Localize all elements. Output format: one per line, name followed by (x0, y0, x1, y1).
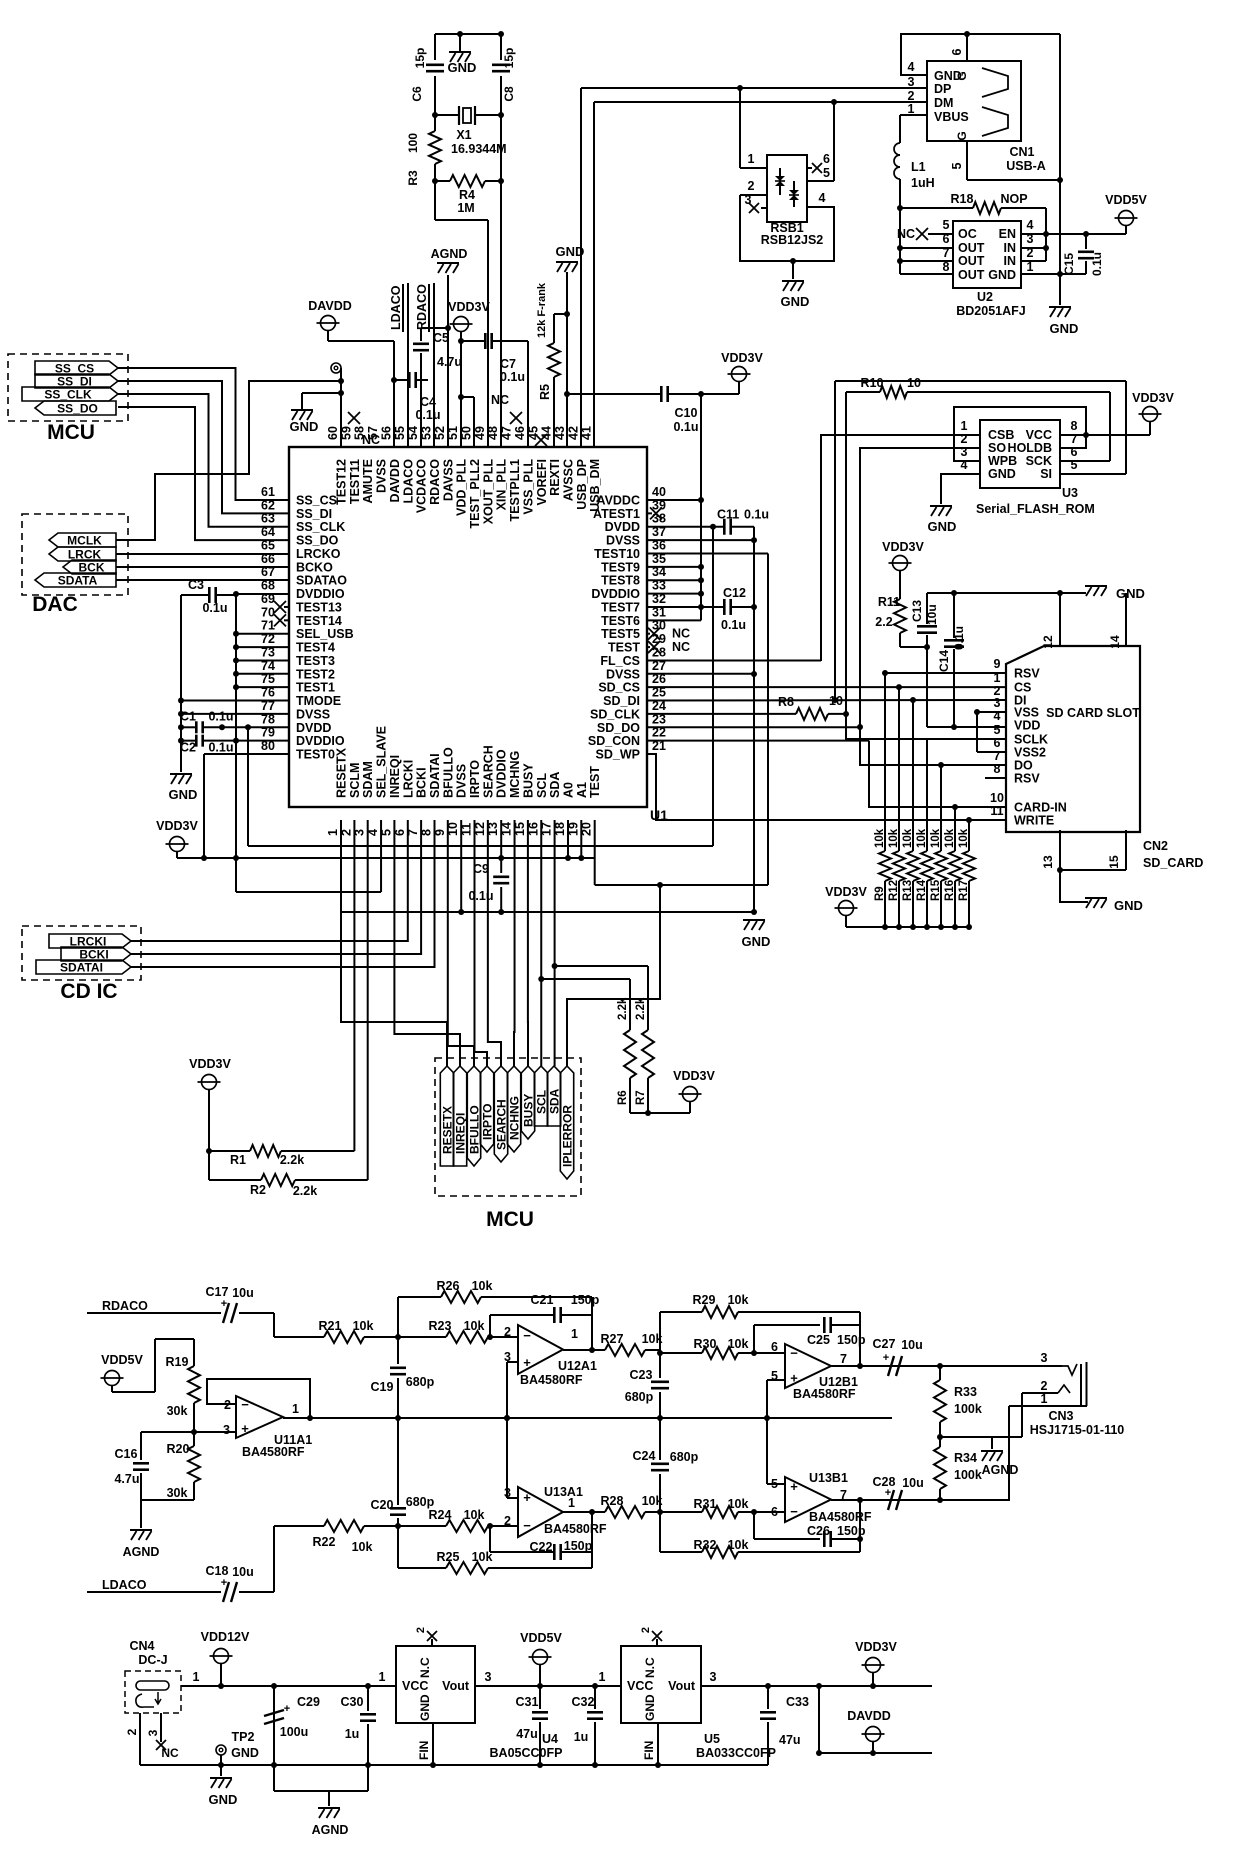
svg-text:6: 6 (771, 1340, 778, 1354)
svg-text:0.1u: 0.1u (208, 741, 233, 755)
svg-text:+: + (790, 1479, 798, 1494)
svg-text:SD CARD SLOT: SD CARD SLOT (1046, 706, 1140, 720)
svg-text:SEARCH: SEARCH (481, 745, 495, 798)
svg-text:DC-J: DC-J (138, 1653, 167, 1667)
svg-text:U12A1: U12A1 (558, 1359, 597, 1373)
svg-text:0.1u: 0.1u (952, 626, 966, 650)
svg-text:1: 1 (193, 1670, 200, 1684)
svg-text:R17: R17 (958, 880, 970, 901)
svg-text:MCU: MCU (486, 1208, 534, 1231)
svg-text:0.1u: 0.1u (202, 601, 227, 615)
svg-text:C1: C1 (180, 709, 196, 723)
svg-text:GND: GND (1050, 321, 1079, 336)
svg-text:IRPTO: IRPTO (468, 760, 482, 798)
svg-text:6: 6 (950, 48, 964, 55)
svg-text:Vout: Vout (668, 1679, 696, 1693)
svg-text:SDA: SDA (548, 1088, 562, 1114)
svg-text:VCC: VCC (402, 1679, 428, 1693)
svg-text:10k: 10k (888, 828, 900, 848)
svg-text:9: 9 (994, 657, 1001, 671)
svg-text:TEST9: TEST9 (601, 560, 640, 574)
svg-text:R23: R23 (429, 1319, 452, 1333)
svg-text:SCL: SCL (535, 773, 549, 798)
svg-text:USB-A: USB-A (1006, 159, 1046, 173)
svg-text:0.1u: 0.1u (673, 420, 698, 434)
svg-text:U5: U5 (704, 1732, 720, 1746)
svg-text:TEST3: TEST3 (296, 654, 335, 668)
svg-text:DVDD: DVDD (605, 520, 640, 534)
svg-text:3: 3 (223, 1423, 230, 1437)
svg-text:100u: 100u (280, 1725, 309, 1739)
svg-text:DAVSS: DAVSS (441, 459, 455, 501)
svg-text:5: 5 (950, 162, 964, 169)
svg-text:VOREFI: VOREFI (535, 459, 549, 506)
svg-text:1: 1 (571, 1327, 578, 1341)
svg-text:C32: C32 (572, 1695, 595, 1709)
svg-text:15: 15 (1107, 855, 1121, 869)
svg-text:2.2k: 2.2k (293, 1184, 317, 1198)
svg-text:R15: R15 (930, 879, 942, 901)
svg-text:RESETX: RESETX (441, 1106, 455, 1154)
svg-text:2: 2 (748, 179, 755, 193)
svg-text:CN3: CN3 (1048, 1409, 1073, 1423)
svg-text:C31: C31 (516, 1695, 539, 1709)
svg-text:15p: 15p (413, 48, 427, 69)
svg-text:C18: C18 (206, 1564, 229, 1578)
svg-text:SD_CON: SD_CON (588, 734, 640, 748)
svg-text:10k: 10k (472, 1279, 493, 1293)
svg-text:WPB: WPB (988, 454, 1017, 468)
svg-text:VDD5V: VDD5V (1105, 193, 1147, 207)
svg-text:BUSY: BUSY (521, 763, 535, 798)
svg-text:11: 11 (990, 804, 1003, 818)
svg-text:A0: A0 (561, 782, 575, 798)
svg-text:10k: 10k (353, 1319, 374, 1333)
svg-text:+: + (885, 1487, 891, 1499)
svg-text:DP: DP (934, 82, 951, 96)
svg-text:VCC: VCC (627, 1679, 653, 1693)
svg-text:VDD3V: VDD3V (855, 1640, 897, 1654)
svg-text:TEST0: TEST0 (296, 748, 335, 762)
svg-text:C5: C5 (433, 331, 449, 345)
svg-text:70: 70 (261, 605, 275, 619)
svg-text:VDD3V: VDD3V (448, 300, 490, 314)
svg-text:RSV: RSV (1014, 667, 1040, 681)
svg-text:1: 1 (908, 102, 915, 116)
svg-text:R33: R33 (954, 1385, 977, 1399)
svg-text:TEST5: TEST5 (601, 627, 640, 641)
svg-text:10k: 10k (902, 828, 914, 848)
svg-text:SS_DO: SS_DO (296, 534, 339, 548)
svg-text:SD_WP: SD_WP (596, 748, 640, 762)
svg-text:AVSSC: AVSSC (561, 459, 575, 501)
svg-text:IN: IN (1004, 254, 1017, 268)
svg-text:38: 38 (652, 512, 666, 526)
svg-text:LDACO: LDACO (389, 285, 403, 330)
svg-text:3: 3 (710, 1670, 717, 1684)
svg-text:C15: C15 (1062, 253, 1076, 275)
svg-text:GND: GND (742, 934, 771, 949)
svg-text:C22: C22 (530, 1540, 553, 1554)
svg-text:SI: SI (1040, 467, 1052, 481)
svg-text:SDAM: SDAM (361, 761, 375, 798)
svg-text:C25: C25 (807, 1333, 830, 1347)
svg-text:CN4: CN4 (129, 1639, 154, 1653)
svg-text:RDACO: RDACO (415, 284, 429, 330)
svg-text:100k: 100k (954, 1468, 982, 1482)
svg-text:NC: NC (672, 640, 690, 654)
svg-text:TEST6: TEST6 (601, 614, 640, 628)
svg-text:DVDDIO: DVDDIO (296, 734, 345, 748)
svg-text:4: 4 (994, 709, 1001, 723)
svg-text:10k: 10k (728, 1538, 749, 1552)
svg-text:U4: U4 (542, 1732, 558, 1746)
svg-text:GND: GND (988, 467, 1016, 481)
svg-text:VSS2: VSS2 (1014, 746, 1046, 760)
svg-text:ATEST1: ATEST1 (593, 507, 640, 521)
svg-text:AGND: AGND (123, 1545, 160, 1559)
svg-text:150p: 150p (837, 1333, 866, 1347)
svg-text:DAC: DAC (32, 593, 78, 616)
svg-text:GND: GND (209, 1792, 238, 1807)
svg-text:BUSY: BUSY (522, 1094, 536, 1127)
svg-text:TEST4: TEST4 (296, 641, 335, 655)
svg-text:0.1u: 0.1u (415, 408, 440, 422)
svg-text:10k: 10k (728, 1497, 749, 1511)
svg-text:6: 6 (823, 152, 830, 166)
svg-text:GND: GND (231, 1746, 259, 1760)
svg-text:DVDD: DVDD (296, 721, 331, 735)
svg-text:VDD3V: VDD3V (721, 351, 763, 365)
svg-text:DVDDIO: DVDDIO (591, 587, 640, 601)
svg-text:SDATA: SDATA (58, 574, 98, 588)
svg-text:0.1u: 0.1u (208, 709, 233, 723)
svg-text:3: 3 (908, 75, 915, 89)
svg-text:Vout: Vout (442, 1679, 470, 1693)
svg-text:+: + (523, 1355, 531, 1370)
svg-text:1: 1 (961, 419, 968, 433)
svg-text:BD2051AFJ: BD2051AFJ (956, 304, 1026, 318)
svg-text:10: 10 (907, 376, 921, 390)
svg-text:VDD5V: VDD5V (520, 1631, 562, 1645)
svg-text:GND: GND (643, 1694, 657, 1721)
svg-text:VSS_PLL: VSS_PLL (521, 459, 535, 515)
svg-text:G: G (955, 71, 969, 80)
svg-text:MCHNG: MCHNG (508, 751, 522, 798)
svg-text:C30: C30 (341, 1695, 364, 1709)
svg-text:Serial_FLASH_ROM: Serial_FLASH_ROM (976, 502, 1095, 516)
svg-text:C8: C8 (502, 86, 516, 102)
svg-text:BFULLO: BFULLO (441, 747, 455, 798)
svg-text:EN: EN (999, 227, 1016, 241)
svg-text:60: 60 (326, 426, 340, 440)
svg-text:2: 2 (1041, 1379, 1048, 1393)
svg-text:SCLM: SCLM (348, 763, 362, 798)
svg-text:VDD_PLL: VDD_PLL (455, 459, 469, 516)
svg-text:16.9344M: 16.9344M (451, 142, 507, 156)
svg-text:1M: 1M (457, 201, 474, 215)
svg-text:4.7u: 4.7u (437, 355, 462, 369)
svg-text:U2: U2 (977, 290, 993, 304)
svg-text:U13A1: U13A1 (544, 1485, 583, 1499)
svg-text:12: 12 (1041, 635, 1055, 649)
svg-text:GND: GND (418, 1694, 432, 1721)
svg-text:U13B1: U13B1 (809, 1471, 848, 1485)
svg-text:44: 44 (540, 426, 554, 440)
svg-text:CN1: CN1 (1009, 145, 1034, 159)
svg-text:1u: 1u (574, 1730, 589, 1744)
svg-text:10u: 10u (925, 604, 939, 625)
svg-text:1: 1 (1041, 1392, 1048, 1406)
svg-text:40: 40 (652, 485, 666, 499)
svg-text:VSS: VSS (1014, 706, 1039, 720)
svg-text:1: 1 (599, 1670, 606, 1684)
svg-text:30k: 30k (167, 1404, 188, 1418)
svg-text:−: − (790, 1504, 798, 1519)
svg-text:MCLK: MCLK (67, 534, 102, 548)
svg-text:BCKO: BCKO (296, 560, 333, 574)
svg-text:SS_DO: SS_DO (57, 402, 98, 416)
svg-text:10u: 10u (901, 1338, 923, 1352)
svg-text:1: 1 (292, 1402, 299, 1416)
svg-text:R2: R2 (250, 1183, 266, 1197)
svg-text:C29: C29 (297, 1695, 320, 1709)
svg-text:1u: 1u (345, 1727, 360, 1741)
svg-text:R5: R5 (538, 384, 552, 400)
svg-text:RDACO: RDACO (428, 459, 442, 505)
svg-text:C27: C27 (873, 1337, 896, 1351)
svg-text:150p: 150p (571, 1293, 600, 1307)
svg-text:SDATAO: SDATAO (296, 574, 347, 588)
svg-text:TEST7: TEST7 (601, 600, 640, 614)
svg-text:VDD: VDD (1014, 719, 1040, 733)
svg-text:10k: 10k (944, 828, 956, 848)
svg-text:RDACO: RDACO (102, 1299, 148, 1313)
svg-text:680p: 680p (625, 1390, 654, 1404)
svg-text:R31: R31 (694, 1497, 717, 1511)
svg-text:XIN_PLL: XIN_PLL (495, 459, 509, 511)
svg-text:TEST11: TEST11 (348, 459, 362, 504)
svg-text:SD_CARD: SD_CARD (1143, 856, 1203, 870)
svg-text:SD_DI: SD_DI (603, 694, 640, 708)
svg-text:2: 2 (504, 1514, 511, 1528)
svg-text:1: 1 (326, 829, 340, 836)
svg-text:R21: R21 (319, 1319, 342, 1333)
svg-text:HSJ1715-01-110: HSJ1715-01-110 (1030, 1423, 1125, 1437)
svg-text:SEL_USB: SEL_USB (296, 627, 354, 641)
svg-text:12k F-rank: 12k F-rank (536, 282, 548, 338)
svg-text:R6: R6 (617, 1090, 629, 1105)
svg-text:MCU: MCU (47, 421, 95, 444)
svg-text:−: − (790, 1346, 798, 1361)
svg-text:71: 71 (261, 619, 275, 633)
svg-text:C16: C16 (115, 1447, 138, 1461)
svg-text:10: 10 (829, 694, 843, 708)
svg-text:+: + (790, 1370, 798, 1385)
svg-text:R27: R27 (601, 1332, 624, 1346)
svg-text:SDATAI: SDATAI (60, 961, 103, 975)
svg-text:TMODE: TMODE (296, 694, 341, 708)
svg-text:C17: C17 (206, 1285, 229, 1299)
svg-text:HOLDB: HOLDB (1008, 441, 1052, 455)
svg-text:GND: GND (1114, 898, 1143, 913)
svg-text:150p: 150p (564, 1539, 593, 1553)
svg-text:R7: R7 (635, 1090, 647, 1105)
svg-text:10k: 10k (352, 1540, 373, 1554)
svg-text:A1: A1 (575, 782, 589, 798)
svg-text:10u: 10u (232, 1565, 254, 1579)
svg-text:DAVDD: DAVDD (388, 459, 402, 503)
svg-text:BA4580RF: BA4580RF (242, 1445, 305, 1459)
svg-text:BA05CC0FP: BA05CC0FP (490, 1746, 563, 1760)
svg-text:GND: GND (781, 294, 810, 309)
svg-text:VDD3V: VDD3V (825, 885, 867, 899)
svg-text:C11: C11 (717, 508, 739, 522)
svg-text:R29: R29 (693, 1293, 716, 1307)
svg-text:VCDACO: VCDACO (415, 459, 429, 513)
svg-text:NC: NC (672, 627, 690, 641)
svg-text:7: 7 (840, 1352, 847, 1366)
svg-text:U3: U3 (1062, 486, 1078, 500)
svg-text:R34: R34 (954, 1451, 977, 1465)
svg-text:C7: C7 (500, 357, 516, 371)
svg-text:SD_DO: SD_DO (597, 721, 640, 735)
svg-text:GND: GND (988, 268, 1016, 282)
svg-text:REXTI: REXTI (548, 459, 562, 496)
svg-text:1: 1 (748, 152, 755, 166)
svg-text:TEST: TEST (588, 766, 602, 798)
svg-text:SS_CLK: SS_CLK (296, 520, 345, 534)
svg-text:8: 8 (994, 762, 1001, 776)
svg-text:DVSS: DVSS (455, 764, 469, 798)
svg-text:BA4580RF: BA4580RF (520, 1373, 583, 1387)
svg-text:2: 2 (504, 1325, 511, 1339)
svg-text:+: + (221, 1298, 227, 1310)
svg-text:680p: 680p (670, 1450, 699, 1464)
svg-text:TEST13: TEST13 (296, 600, 342, 614)
svg-text:C24: C24 (633, 1449, 656, 1463)
svg-text:DVSS: DVSS (606, 534, 640, 548)
svg-text:DAVDD: DAVDD (847, 1709, 891, 1723)
svg-text:R3: R3 (406, 170, 420, 186)
svg-text:56: 56 (379, 426, 393, 440)
svg-text:R1: R1 (230, 1153, 246, 1167)
svg-text:SS_DI: SS_DI (296, 507, 332, 521)
svg-text:10u: 10u (232, 1286, 254, 1300)
svg-text:42: 42 (566, 426, 580, 440)
svg-text:4: 4 (1027, 218, 1034, 232)
svg-text:X1: X1 (456, 128, 471, 142)
svg-text:C10: C10 (675, 406, 698, 420)
svg-text:C26: C26 (807, 1524, 830, 1538)
svg-text:10k: 10k (728, 1337, 749, 1351)
svg-text:R13: R13 (902, 880, 914, 901)
svg-text:CARD-IN: CARD-IN (1014, 801, 1067, 815)
svg-text:R12: R12 (888, 880, 900, 901)
svg-text:VDD5V: VDD5V (101, 1353, 143, 1367)
svg-text:61: 61 (261, 485, 275, 499)
svg-text:R26: R26 (437, 1279, 460, 1293)
svg-text:10k: 10k (464, 1319, 485, 1333)
svg-text:+: + (241, 1421, 249, 1436)
svg-text:CSB: CSB (988, 428, 1014, 442)
svg-text:−: − (523, 1518, 531, 1533)
svg-text:R32: R32 (694, 1538, 717, 1552)
svg-text:AGND: AGND (982, 1463, 1019, 1477)
svg-text:TEST_PLL2: TEST_PLL2 (468, 459, 482, 529)
svg-text:IPLERROR: IPLERROR (561, 1105, 575, 1167)
svg-text:10: 10 (990, 791, 1004, 805)
svg-text:BA033CC0FP: BA033CC0FP (696, 1746, 776, 1760)
svg-text:10k: 10k (472, 1550, 493, 1564)
svg-text:VCC: VCC (1026, 428, 1052, 442)
svg-text:C21: C21 (531, 1293, 554, 1307)
svg-text:2.2k: 2.2k (280, 1153, 304, 1167)
svg-text:R11: R11 (878, 595, 900, 609)
svg-text:1uH: 1uH (911, 176, 935, 190)
svg-text:10k: 10k (916, 828, 928, 848)
svg-text:+: + (883, 1352, 889, 1364)
svg-text:C13: C13 (910, 600, 924, 622)
svg-text:DO: DO (1014, 759, 1033, 773)
svg-text:C33: C33 (786, 1695, 809, 1709)
svg-text:CN2: CN2 (1143, 839, 1168, 853)
svg-text:RSV: RSV (1014, 772, 1040, 786)
svg-text:+: + (284, 1703, 290, 1715)
svg-text:TESTPLL1: TESTPLL1 (508, 459, 522, 522)
svg-text:0.1u: 0.1u (1090, 252, 1104, 276)
svg-text:2: 2 (908, 89, 915, 103)
svg-text:R4: R4 (459, 188, 475, 202)
svg-text:FIN: FIN (417, 1741, 431, 1760)
svg-text:10u: 10u (902, 1476, 924, 1490)
svg-text:30k: 30k (167, 1486, 188, 1500)
svg-text:TEST10: TEST10 (594, 547, 640, 561)
svg-text:8: 8 (943, 260, 950, 274)
svg-text:LRCKO: LRCKO (296, 547, 341, 561)
svg-text:680p: 680p (406, 1495, 435, 1509)
svg-text:6: 6 (994, 736, 1001, 750)
svg-text:BFULLO: BFULLO (468, 1105, 482, 1154)
svg-text:R20: R20 (167, 1442, 190, 1456)
svg-text:2.2: 2.2 (875, 615, 892, 629)
svg-text:R24: R24 (429, 1508, 452, 1522)
svg-text:BCKI: BCKI (415, 767, 429, 798)
svg-text:3: 3 (1041, 1351, 1048, 1365)
svg-text:1: 1 (379, 1670, 386, 1684)
svg-text:G: G (955, 131, 969, 140)
svg-text:TEST: TEST (608, 641, 640, 655)
svg-text:5: 5 (994, 723, 1001, 737)
svg-text:DAVDD: DAVDD (308, 299, 352, 313)
svg-text:VDD3V: VDD3V (882, 540, 924, 554)
svg-text:AMUTE: AMUTE (361, 459, 375, 503)
svg-text:NC: NC (491, 393, 509, 407)
svg-text:GND: GND (448, 60, 477, 75)
svg-text:R10: R10 (861, 376, 884, 390)
svg-text:C3: C3 (188, 578, 204, 592)
svg-text:C12: C12 (723, 586, 746, 600)
svg-text:FL_CS: FL_CS (600, 654, 640, 668)
svg-text:RSB12JS2: RSB12JS2 (761, 233, 824, 247)
svg-text:NC: NC (161, 1746, 179, 1760)
svg-text:R30: R30 (694, 1337, 717, 1351)
svg-text:INREQI: INREQI (454, 1113, 468, 1154)
svg-text:NOP: NOP (1000, 192, 1027, 206)
svg-text:DVDDIO: DVDDIO (296, 587, 345, 601)
svg-text:SDATAI: SDATAI (428, 753, 442, 798)
svg-text:GND: GND (169, 787, 198, 802)
